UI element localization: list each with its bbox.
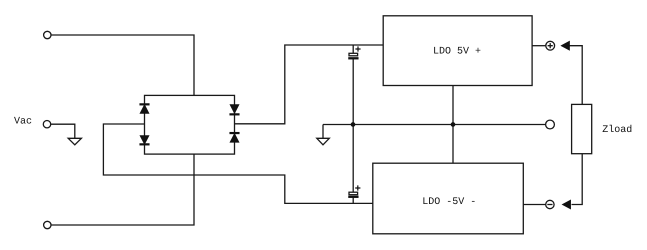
junction dot node A (C1/0V rail) <box>351 123 355 127</box>
diode D4 (bridge bottom-right) <box>230 134 239 142</box>
regulator U1 box <box>383 16 532 86</box>
diode D3 (bridge top-right) <box>230 105 239 113</box>
terminal J6 (-5V output) <box>546 200 554 208</box>
wire Zload bottom <box>572 154 583 205</box>
wire capacitor C1 leads <box>352 45 354 125</box>
terminal J5 (0V output) <box>546 120 555 129</box>
wire J3 to ground <box>51 124 75 138</box>
arrow into J6 <box>563 200 571 209</box>
capacitor C1 bottom plate <box>349 58 358 59</box>
capacitor C1 top plate <box>349 53 358 56</box>
wire mid rail (0V) <box>323 124 546 126</box>
wire LDO interconnect vertical <box>452 86 454 164</box>
capacitor C2 bottom plate <box>349 196 358 197</box>
ground GND2 <box>317 138 330 145</box>
wire capacitor C2 leads <box>352 125 354 204</box>
svg-text:Vac: Vac <box>14 117 32 128</box>
wire U1 output <box>532 45 546 47</box>
ground GND1 <box>68 138 81 145</box>
regulator U2 box <box>373 163 524 234</box>
terminal J6 minus mark <box>547 204 552 206</box>
diode D2 (bridge bottom-left) <box>140 136 149 144</box>
svg-text:Zload: Zload <box>602 124 632 136</box>
junction dot node B (LDO interconnect/0V rail) <box>451 123 455 127</box>
terminal J1 (AC top-left) <box>44 31 51 38</box>
terminal J2 (AC bottom-left) <box>44 221 51 228</box>
capacitor C2 top plate <box>349 192 358 195</box>
terminal J4 (+5V output) <box>546 41 555 50</box>
terminal J3 (Vac mid-left) <box>43 121 50 128</box>
bridge rectifier BR1 body <box>145 95 235 154</box>
arrow into J4 <box>561 41 569 50</box>
wire bridge right AC node to LDO 5V input <box>235 45 384 124</box>
terminal J4 plus mark <box>548 43 553 48</box>
wire Zload top <box>569 46 582 105</box>
ground GND2 stem <box>322 125 324 139</box>
wire bridge left AC node to LDO -5V input <box>103 124 372 203</box>
svg-text:LDO -5V -: LDO -5V - <box>422 197 476 208</box>
wire J1 to bridge top <box>51 35 194 95</box>
svg-text:LDO 5V +: LDO 5V + <box>433 47 481 58</box>
resistor Zload body <box>572 104 592 153</box>
wire U2 output <box>523 204 545 206</box>
capacitor C2 polarity + <box>355 185 360 190</box>
diode D1 (bridge top-left) <box>140 105 149 113</box>
capacitor C1 polarity + <box>355 46 360 51</box>
wire J2 to bridge bottom <box>51 154 194 225</box>
